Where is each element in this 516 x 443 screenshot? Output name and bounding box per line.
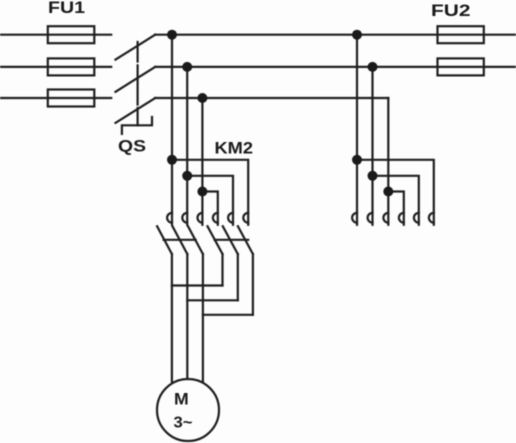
right group fixed contact arc 11	[414, 213, 419, 223]
fuse FU1 pole 3	[48, 90, 95, 107]
junction dot right branch 2	[368, 171, 378, 181]
crossbar wire 2 (contact2 to contact5)	[187, 299, 238, 301]
contactor KM2 fixed contact arc 6	[243, 213, 248, 223]
junction dot right branch 1	[352, 155, 362, 165]
contactor KM2 fixed contact arc 1	[167, 213, 172, 223]
wire L3 incoming segment	[0, 97, 111, 99]
wire right branch 2 to contact 11	[373, 176, 419, 225]
svg-text:KM2: KM2	[215, 140, 254, 158]
right group fixed contact arc 9	[383, 213, 388, 223]
wire right drop from L1 to contact 7	[356, 35, 358, 225]
motor M circle	[157, 379, 219, 441]
svg-text:QS: QS	[118, 138, 146, 156]
svg-text:FU1: FU1	[48, 0, 85, 17]
junction dot L1-right	[352, 30, 362, 40]
contactor KM2 moving blade 1	[157, 226, 172, 254]
wire left branch 3 to contact 4	[202, 192, 217, 225]
wire L2 incoming segment	[0, 66, 111, 68]
wire right branch 1 to contact 12	[357, 160, 434, 225]
contactor KM2 moving blade 4	[208, 226, 223, 254]
wire from blade 4 down to crossbar 1	[221, 254, 223, 286]
contactor KM2 moving blade 6	[238, 226, 253, 254]
junction dot L3-left	[197, 93, 207, 103]
wire L1 incoming segment	[0, 34, 111, 36]
switch QS handle bracket	[122, 117, 152, 134]
right group fixed contact arc 12	[429, 213, 434, 223]
wire left drop from L2 to contact 2	[186, 67, 188, 225]
svg-text:FU2: FU2	[431, 2, 471, 20]
wire right branch 3 to contact 10	[388, 192, 404, 225]
right group fixed contact arc 10	[399, 213, 404, 223]
contactor KM2 fixed contact arc 2	[182, 213, 187, 223]
fuse FU1 pole 1	[48, 26, 95, 43]
contactor KM2 linkage bar poles 1-3	[164, 239, 196, 241]
wire left drop from L1 to contact 1	[171, 35, 173, 225]
junction dot left branch 1	[167, 155, 177, 165]
junction dot left branch 3	[197, 187, 207, 197]
switch QS linkage (dashed)	[137, 42, 139, 125]
contactor KM2 fixed contact arc 3	[198, 213, 203, 223]
wire from blade 5 down to crossbar 2	[237, 254, 239, 300]
wire motor phase W	[202, 254, 204, 383]
wire left branch 1 to contact 6	[172, 160, 248, 225]
contactor KM2 fixed contact arc 5	[228, 213, 233, 223]
crossbar wire 3 (contact3 to contact6)	[203, 314, 253, 316]
fuse FU2 pole 2	[438, 58, 484, 75]
junction dot right branch 3	[383, 187, 393, 197]
contactor KM2 moving blade 2	[173, 226, 188, 254]
wire left drop from L3 to contact 3	[201, 98, 203, 225]
wire L3 corner drop to contact 9	[387, 98, 389, 225]
junction dot L2-left	[182, 62, 192, 72]
wire motor phase U	[171, 254, 173, 383]
switch QS blade 2	[116, 67, 156, 92]
wire L2 outgoing to right edge	[155, 66, 516, 68]
contactor KM2 moving blade 5	[223, 226, 238, 254]
fuse FU1 pole 2	[48, 58, 95, 75]
wire L3 outgoing segment	[155, 97, 388, 99]
contactor KM2 fixed contact arc 4	[213, 213, 218, 223]
svg-text:M: M	[174, 390, 189, 409]
switch QS blade 3	[116, 98, 156, 123]
wire motor phase V	[186, 254, 188, 380]
crossbar wire 1 (contact1 to contact4)	[172, 284, 223, 286]
wire from blade 6 down to crossbar 3	[252, 254, 254, 315]
right group fixed contact arc 8	[368, 213, 373, 223]
junction dot L2-right	[368, 62, 378, 72]
svg-text:3~: 3~	[174, 415, 193, 432]
junction dot L1-left	[167, 30, 177, 40]
wire left branch 2 to contact 5	[187, 176, 233, 225]
contactor KM2 moving blade 3	[188, 226, 203, 254]
switch QS blade 1	[116, 35, 156, 60]
wire right drop from L2 to contact 8	[371, 67, 373, 225]
fuse FU2 pole 1	[438, 26, 484, 43]
junction dot left branch 2	[182, 171, 192, 181]
contactor KM2 linkage bar poles 4-6	[215, 239, 249, 241]
right group fixed contact arc 7	[352, 213, 357, 223]
wire L1 outgoing to right edge	[155, 34, 516, 36]
